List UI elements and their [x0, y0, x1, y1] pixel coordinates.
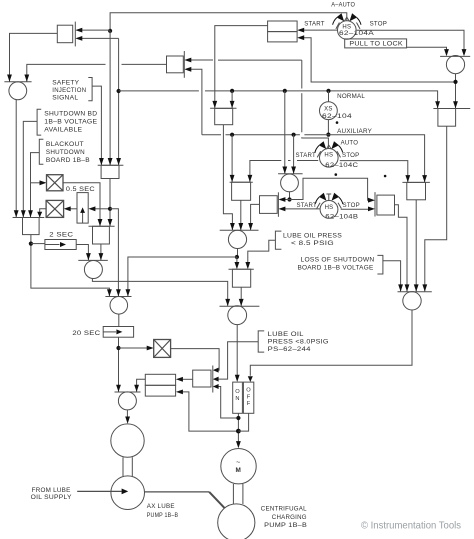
wire B2 input 1 from vertical x301.8: [218, 59, 302, 61]
time-delay XB3: [154, 340, 171, 358]
time-delay XB2: [46, 200, 64, 217]
wire FROM LUBE OIL SUPPLY into pump P1: [77, 490, 121, 492]
contact slash left of 104B: [317, 203, 320, 209]
svg-text:LUBE OIL: LUBE OIL: [268, 331, 304, 338]
svg-text:1B–B VOLTAGE: 1B–B VOLTAGE: [44, 118, 97, 125]
wire B10 output into latch L2 set: [182, 378, 193, 380]
wire AUXILIARY left end up into AND B2 input 2: [191, 69, 202, 134]
delay 2 SEC box: [45, 240, 76, 250]
wire ON output down to motor M2: [237, 413, 239, 442]
svg-text:BLACKOUT: BLACKOUT: [46, 141, 84, 148]
svg-text:LOSS OF SHUTDOWN: LOSS OF SHUTDOWN: [301, 257, 375, 264]
node junction dot on A-AUTO bus feeding B1 input 1: [108, 29, 112, 33]
wire G8 output across to OR G10 input 1: [92, 278, 227, 306]
wire SAFETY signal to AND B6 input 1: [92, 86, 101, 165]
wire B1 input 2 corner from vertical x118.6: [82, 37, 119, 39]
or-gate G12 circle: [403, 292, 421, 310]
and-gate B4 input bar: [277, 192, 279, 217]
contact slash right of 104C: [337, 151, 341, 157]
and-gate B9 input bar: [89, 225, 115, 227]
PULL TO LOCK box: [345, 39, 407, 48]
or-gate G7 circle: [228, 230, 246, 248]
svg-text:AUTO: AUTO: [341, 140, 359, 147]
pipe P1 discharge to charging pump P2: [145, 491, 210, 493]
bracket left of BLACKOUT text: [39, 139, 43, 164]
svg-text:LUBE OIL PRESS: LUBE OIL PRESS: [283, 233, 342, 240]
svg-text:START: START: [304, 20, 325, 27]
time-delay XB1 0.5 SEC: [47, 175, 64, 191]
svg-text:20 SEC: 20 SEC: [72, 330, 100, 337]
and-gate B7 input bar: [13, 217, 45, 219]
contact slash right of HS-62-104A: [357, 23, 361, 29]
svg-text:< 8.5 PSIG: < 8.5 PSIG: [291, 240, 334, 247]
and-gate B11 input bar: [374, 192, 376, 216]
and-gate B2 box: [167, 56, 184, 73]
svg-text:SAFETY: SAFETY: [52, 79, 79, 86]
node dot AUXILIARY to OR G6 input 2: [292, 133, 296, 137]
pulse timer TB internal up arrow: [82, 213, 84, 224]
wire B1 input 1: [82, 29, 111, 31]
and-gate B9 box: [93, 226, 110, 244]
and-gate G4 input bar: [433, 108, 470, 110]
and-gate G4 box: [438, 109, 456, 127]
node dot G6 output: [287, 197, 291, 201]
wire G6 output with node: [289, 192, 291, 200]
node dot AUXILIARY to AND B5 input 1: [230, 133, 234, 137]
and-gate B1 input bar: [74, 22, 76, 47]
wire latch L2 output to OR G11 input 2: [137, 379, 146, 391]
and-gate B4 box: [260, 196, 278, 214]
wire XS-62-104 bottom to AUXILIARY line: [327, 120, 329, 135]
contact slash right of 104B: [338, 203, 341, 209]
svg-text:62–104A: 62–104A: [339, 30, 375, 37]
wire B5 output to OR G7 input 2: [240, 200, 242, 230]
svg-text:F: F: [247, 401, 251, 407]
switch ON box: [233, 382, 243, 413]
svg-text:HS: HS: [324, 152, 333, 158]
svg-text:PRESS <8.0PSIG: PRESS <8.0PSIG: [268, 338, 329, 345]
wire G4 output long drop to OR G12 input 4: [425, 126, 447, 291]
svg-text:CHARGING: CHARGING: [272, 514, 307, 521]
svg-text:STOP: STOP: [342, 152, 360, 159]
latch L2 reset box: [145, 385, 175, 396]
svg-text:62–104C: 62–104C: [325, 162, 358, 169]
svg-text:SHUTDOWN: SHUTDOWN: [46, 149, 85, 156]
svg-text:INJECTION: INJECTION: [52, 87, 86, 94]
and-gate B8 box: [232, 269, 250, 287]
node dot B6 output branch: [108, 207, 112, 211]
node dot G3 output feedback branch: [453, 80, 457, 84]
pulse timer TB tall box: [77, 193, 88, 224]
contact slash left of HS-62-104A: [336, 23, 340, 29]
or-gate G6 circle: [281, 174, 299, 192]
wire B4 output to OR G7 input 3: [251, 204, 260, 230]
wire B1 output to OR G1 input 1: [10, 33, 58, 81]
svg-text:PULL TO LOCK: PULL TO LOCK: [349, 41, 403, 48]
wire into 2 SEC delay box: [31, 243, 45, 245]
svg-text:PUMP 1B–B: PUMP 1B–B: [147, 512, 179, 519]
wire branch into 0.5 SEC delay XB1: [31, 182, 41, 184]
wire 104C START contact to AND B5 input 2: [297, 160, 318, 162]
and-gate B7 box: [23, 218, 40, 235]
wire 104B STOP contact to AND B11 input 2: [341, 208, 369, 210]
wire branch right to G9 input 2 drop: [110, 209, 118, 296]
bracket right of SAFETY text: [88, 78, 92, 101]
wire 20 SEC output down to OR G11 input 1: [118, 337, 120, 392]
and-gate G2 box: [215, 108, 233, 124]
svg-text:START: START: [296, 152, 317, 159]
svg-text:A–AUTO: A–AUTO: [331, 2, 355, 9]
decor dot right of 104C: [384, 175, 387, 178]
or-gate G11 circle: [118, 392, 136, 410]
wire G3 output down to AND G4 input 2: [455, 74, 457, 109]
or-gate G1 circle: [9, 82, 27, 100]
wire 2 SEC output to OR G8 input 1: [76, 245, 88, 261]
wire NORMAL drop to OR G6 input 1: [284, 91, 286, 174]
svg-text:XS: XS: [324, 107, 333, 113]
svg-text:N: N: [235, 396, 239, 402]
or-gate G8 circle: [84, 261, 102, 279]
svg-text:OIL SUPPLY: OIL SUPPLY: [31, 494, 72, 501]
and-gate B2 input bar: [183, 51, 185, 78]
svg-text:~: ~: [236, 459, 240, 466]
or-gate G7 input bar: [220, 229, 259, 231]
svg-text:HS: HS: [325, 205, 334, 211]
svg-text:62–104B: 62–104B: [325, 213, 358, 220]
wire OFF output joining node: [238, 413, 248, 431]
wire G10 output down to ON box: [236, 325, 238, 376]
bracket left of PS-62-244 text: [258, 331, 264, 352]
delay 20 SEC box: [103, 327, 133, 338]
hand-switch HS-62-104A circle: [338, 21, 357, 40]
and-gate B1 box: [57, 25, 72, 43]
motor M2 circle: [221, 449, 256, 484]
or-gate G10 input bar: [220, 305, 260, 307]
wire top A-AUTO bus from node at x110 to HS-62-104A drop: [110, 13, 347, 31]
wire ON node feedback to AND B10 input 3: [219, 387, 239, 419]
svg-text:M: M: [236, 467, 242, 474]
svg-text:AUXILIARY: AUXILIARY: [337, 128, 372, 135]
wire B8 output to OR G10 input 2: [240, 287, 242, 306]
node dot NORMAL to G2 input 2: [230, 89, 234, 93]
svg-text:SIGNAL: SIGNAL: [52, 94, 78, 101]
wire G1 output down to AND B7 input 1: [15, 99, 17, 217]
wire G7 output down with node: [237, 249, 239, 258]
wire G7 output down to AND B8 input 1: [236, 257, 238, 263]
svg-text:START: START: [297, 202, 318, 209]
or-gate G8 input bar: [78, 259, 108, 261]
shaft M2 to P2: [232, 484, 234, 504]
wire G12 output long run to OFF box: [250, 310, 412, 376]
or-gate G3 circle: [446, 56, 464, 74]
bracket left of SHUTDOWN BD text: [37, 109, 41, 135]
node dot NORMAL to OR G6 input 1: [283, 89, 287, 93]
wire latch L1 output down into G2 input 1: [215, 26, 268, 108]
svg-text:BOARD 1B–B: BOARD 1B–B: [46, 157, 90, 164]
wire TB output into delay XB2 right side: [70, 208, 77, 210]
wire NORMAL line: [119, 90, 199, 92]
wire NORMAL drop to AND G2 input 2: [231, 91, 233, 108]
or-gate G12 input bar: [398, 291, 432, 293]
node dot 20 SEC output branch to XB3: [116, 346, 120, 350]
svg-text:62–104: 62–104: [322, 113, 352, 120]
wire G11 output down to motor M1: [126, 410, 128, 417]
latch L2 set box: [145, 374, 175, 385]
wire G7 output left to OR G9 input 3: [128, 257, 237, 296]
node dot NORMAL line start on x118.6: [117, 89, 121, 93]
wire vertical x301.8 down to HS-62-104C AUTO contact: [301, 60, 303, 88]
and-gate B5 box: [232, 182, 251, 200]
wire B6 output down to AND B9 input 2: [109, 179, 111, 227]
and-gate B10 box: [193, 370, 211, 387]
wire 104B START contact line into B4 input 2: [285, 208, 321, 210]
wire G3 output feedback into latch L1 reset: [303, 38, 455, 82]
svg-text:STOP: STOP: [370, 20, 388, 27]
pump P2 circle CENTRIFUGAL CHARGING PUMP: [218, 504, 255, 539]
or-gate G11 input bar: [115, 391, 141, 393]
decor dot below XS: [336, 121, 339, 124]
node dot NORMAL to XS-62-104: [326, 89, 330, 93]
shaft M1 to P1: [122, 457, 124, 476]
or-gate G3 input bar: [440, 55, 470, 57]
and-gate B6 input bar: [98, 164, 124, 166]
delay 20 SEC internal arrow: [103, 331, 116, 333]
wire G9 output into 20 SEC delay: [118, 314, 120, 326]
delay 2 SEC internal arrow: [45, 244, 60, 246]
wire G5 output down to OR G12 input 3: [415, 200, 417, 292]
wire 104C STOP contact to AND G5 input 1: [340, 161, 408, 183]
wire BLACKOUT to AND B7 input 3 with branch to delay XB1: [31, 153, 40, 218]
wire AUXILIARY drop to AND B5 input 1: [231, 135, 233, 182]
pump P1 circle AX LUBE PUMP: [111, 476, 145, 510]
wire STOP contact to OR G3 input 2: [357, 30, 464, 52]
and-gate B8 input bar: [229, 268, 254, 270]
wire OR G1 input 2 from AND B2 output: [122, 63, 167, 65]
wire from B6-output node into TB right side: [95, 208, 110, 210]
latch L1 reset box: [268, 32, 298, 42]
latch L1 set box: [268, 21, 298, 32]
actuator curved arrows on HS-62-104A: [344, 17, 349, 21]
wire XB2 output to AND B7 input 4: [40, 209, 46, 218]
or-gate G9 input bar: [105, 296, 131, 298]
and-gate B11 box: [377, 195, 395, 215]
svg-text:CENTRIFUGAL: CENTRIFUGAL: [261, 505, 307, 512]
motor M1 circle: [111, 424, 144, 457]
wire G6 output left into AND B4 input 1: [285, 199, 290, 201]
wire A-AUTO bus vertical x110 into B6 input 2: [109, 31, 111, 165]
and-gate B5 input bar: [230, 181, 253, 183]
svg-text:PS–62–244: PS–62–244: [268, 346, 311, 353]
svg-text:NORMAL: NORMAL: [337, 93, 365, 100]
or-gate G10 circle: [228, 306, 247, 325]
wire switch node to latch L2 reset: [182, 392, 238, 431]
wire B7 output down with branch to 2 SEC delay: [31, 235, 110, 297]
wire START into latch L1 set: [303, 29, 337, 31]
node dot feedback to B10: [236, 416, 240, 420]
wire pressure signal to AND B8 input 2: [248, 240, 276, 263]
or-gate G1 input bar: [4, 81, 31, 83]
svg-text:O: O: [235, 389, 240, 395]
wire B9 output to OR G8 input 2: [100, 244, 102, 260]
wire PS-62-244 signal to AND B10 input 2: [219, 342, 259, 379]
wire G2 output to OR G7 input 1: [223, 125, 232, 230]
svg-text:AX LUBE: AX LUBE: [147, 503, 175, 510]
bracket left of LUBE OIL PRESS text: [275, 231, 281, 249]
wire LOSS signal to OR G12 input 1: [383, 261, 401, 292]
wire AUXILIARY drop to OR G6 input 2: [293, 135, 295, 174]
wire B11 output staircase to OR G12 input 2: [395, 205, 408, 292]
wire G6 output right and up to AND B11 input 1: [290, 178, 370, 200]
wire AUXILIARY line across: [202, 134, 221, 136]
wire vertical x118.6 down to AND B6 input 3: [118, 38, 120, 165]
and-gate G5 input bar: [402, 181, 430, 183]
actuator curved arrows on HS-62-104B: [319, 193, 327, 201]
node dot XS on AUXILIARY line: [326, 133, 330, 137]
svg-text:AVAILABLE: AVAILABLE: [44, 126, 82, 133]
or-gate G9 circle: [110, 297, 128, 315]
actuator curved arrows on HS-62-104C: [326, 145, 331, 149]
or-gate G6 input bar: [278, 173, 303, 175]
svg-text:PUMP 1B–B: PUMP 1B–B: [264, 522, 307, 529]
and-gate B10 input bar: [212, 366, 214, 393]
bracket right of LOSS text: [377, 255, 383, 274]
wire XB1 output down to AND B9 input 1: [63, 183, 100, 226]
wire XB3 output staircase to AND B10 input 1: [171, 349, 220, 371]
contact slash left of 104C: [317, 151, 321, 157]
decor dot below 104C: [335, 173, 338, 176]
switch OFF box: [243, 382, 253, 413]
wire PULL TO LOCK contact to OR G3 input 1: [407, 47, 447, 52]
svg-text:STOP: STOP: [343, 202, 361, 209]
svg-text:© Instrumentation Tools: © Instrumentation Tools: [361, 521, 461, 532]
svg-text:F: F: [247, 394, 251, 400]
hand-switch HS-62-104B circle: [320, 201, 338, 219]
svg-text:BOARD 1B–B VOLTAGE: BOARD 1B–B VOLTAGE: [298, 265, 374, 272]
svg-text:SHUTDOWN BD: SHUTDOWN BD: [44, 110, 97, 117]
node dot B7 output to 2 SEC: [29, 242, 33, 246]
and-gate G5 box: [407, 182, 426, 199]
hand-switch HS-62-104C circle: [320, 149, 339, 168]
wire NORMAL to XS-62-104 top: [328, 91, 330, 102]
manual tick above HS-62-104B: [326, 193, 331, 195]
svg-text:2 SEC: 2 SEC: [49, 232, 73, 239]
wire SHUTDOWN BD to AND B7 input 2: [23, 121, 37, 217]
transfer switch XS-62-104 circle: [320, 102, 338, 120]
and-gate G2 input bar: [210, 107, 236, 109]
wire branch right into delay XB3: [119, 347, 148, 349]
and-gate B6 box: [101, 165, 119, 178]
svg-text:O: O: [246, 388, 251, 394]
node dot G7 output: [235, 255, 239, 259]
svg-text:0.5 SEC: 0.5 SEC: [66, 186, 95, 193]
node dot feedback to latch L2 reset: [236, 429, 241, 434]
